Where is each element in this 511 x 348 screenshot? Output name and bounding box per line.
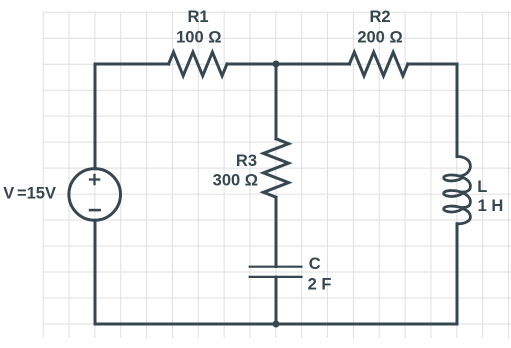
wire bbox=[227, 63, 276, 66]
wire bbox=[95, 220, 276, 324]
wire bbox=[275, 277, 278, 324]
svg-text:1 H: 1 H bbox=[478, 197, 504, 215]
wire bbox=[275, 197, 278, 266]
node junction top bbox=[273, 61, 280, 68]
svg-text:100 Ω: 100 Ω bbox=[176, 28, 221, 46]
wire bbox=[95, 64, 169, 169]
node junction bottom bbox=[273, 321, 280, 328]
voltage source minus sign bbox=[89, 209, 101, 212]
wire bbox=[276, 224, 457, 324]
wire bbox=[408, 64, 457, 157]
voltage source plus sign bbox=[89, 174, 101, 210]
svg-text:200 Ω: 200 Ω bbox=[357, 28, 402, 46]
svg-text:R1: R1 bbox=[187, 8, 208, 26]
svg-text:C: C bbox=[309, 255, 321, 273]
capacitor C plates bbox=[249, 267, 303, 277]
resistor R1 bbox=[169, 52, 227, 76]
wire bbox=[276, 63, 349, 66]
svg-text:300 Ω: 300 Ω bbox=[213, 171, 258, 189]
svg-text:R3: R3 bbox=[236, 152, 257, 170]
voltage source V1 bbox=[69, 169, 121, 221]
resistor R3 bbox=[263, 139, 288, 197]
wire bbox=[275, 64, 278, 139]
inductor L bbox=[444, 156, 471, 223]
svg-text:2 F: 2 F bbox=[308, 276, 332, 294]
resistor R2 bbox=[349, 52, 407, 76]
svg-text:=15V: =15V bbox=[17, 184, 56, 202]
svg-text:V: V bbox=[3, 184, 14, 202]
svg-text:R2: R2 bbox=[369, 8, 390, 26]
svg-text:L: L bbox=[477, 178, 487, 196]
